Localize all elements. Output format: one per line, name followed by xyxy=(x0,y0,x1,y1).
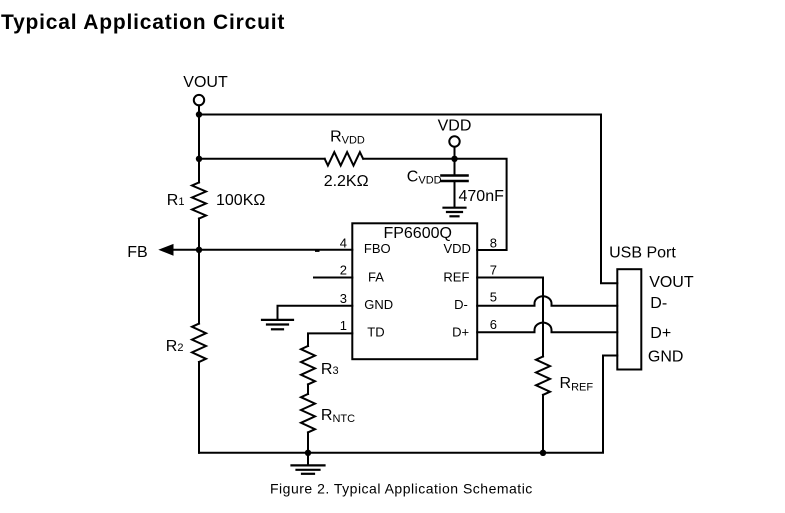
FB arrow xyxy=(158,244,173,256)
wire pin3 GND to ground xyxy=(278,306,353,319)
wire RVDD to VDD node xyxy=(364,158,455,160)
svg-text:2: 2 xyxy=(340,263,347,278)
svg-text:8: 8 xyxy=(490,236,497,251)
terminal VDD xyxy=(449,136,459,146)
svg-text:470nF: 470nF xyxy=(459,188,505,205)
ground under CVDD xyxy=(444,207,466,209)
node dot VDD xyxy=(451,156,457,162)
svg-text:7: 7 xyxy=(490,263,497,278)
svg-text:REF: REF xyxy=(443,269,469,284)
svg-text:6: 6 xyxy=(490,317,497,332)
wire pin2 FA stub xyxy=(314,277,352,279)
wire RREF to bottom rail xyxy=(542,395,544,453)
resistor R3 xyxy=(301,346,315,384)
resistor R2 xyxy=(192,324,206,362)
svg-text:GND: GND xyxy=(648,349,684,366)
resistor RNTC xyxy=(301,394,315,432)
USB port connector box xyxy=(617,269,641,369)
svg-text:100KΩ: 100KΩ xyxy=(216,192,265,209)
svg-text:3: 3 xyxy=(340,291,347,306)
resistor RREF xyxy=(536,357,550,395)
resistor R1 xyxy=(192,183,206,219)
svg-text:VDD: VDD xyxy=(438,118,472,135)
wire R1 to FB node xyxy=(198,219,200,250)
wire R3 to RNTC xyxy=(307,384,309,394)
svg-text:FP6600Q: FP6600Q xyxy=(383,225,451,242)
svg-text:USB Port: USB Port xyxy=(609,245,676,262)
svg-text:Figure 2. Typical Application: Figure 2. Typical Application Schematic xyxy=(270,480,533,496)
wire RNTC to bottom rail xyxy=(307,432,309,452)
svg-text:Typical Application Circuit: Typical Application Circuit xyxy=(1,11,285,34)
wire node2 to RVDD xyxy=(199,158,325,160)
svg-text:GND: GND xyxy=(364,297,393,312)
ground at pin3 xyxy=(262,319,293,321)
pin4 stub tick xyxy=(315,249,320,252)
node dot RVDD row xyxy=(196,156,202,162)
terminal VOUT xyxy=(194,95,204,105)
wire VDD node to pin8 xyxy=(455,159,507,250)
wire top rail to USB xyxy=(199,115,617,284)
svg-text:FA: FA xyxy=(368,269,384,284)
svg-text:VDD: VDD xyxy=(443,241,470,256)
svg-text:2.2KΩ: 2.2KΩ xyxy=(324,173,369,190)
wire pin5 D- to USB with hop xyxy=(477,296,617,306)
wire bottom rail xyxy=(199,356,617,453)
node dot FB xyxy=(196,247,202,253)
wire VDD stub xyxy=(454,147,456,159)
capacitor CVDD xyxy=(454,159,456,175)
node dot VOUT rail xyxy=(196,111,202,117)
wire FB node to R2 xyxy=(198,250,200,324)
svg-text:5: 5 xyxy=(490,290,497,305)
wire VOUT stub xyxy=(198,106,200,115)
wire pin1 TD to R3 xyxy=(308,333,352,346)
svg-text:TD: TD xyxy=(367,325,384,340)
wire pin6 D+ to USB with hop xyxy=(477,323,617,333)
svg-text:D-: D- xyxy=(454,297,468,312)
svg-text:1: 1 xyxy=(340,318,347,333)
ground at bottom rail xyxy=(307,453,309,465)
chip U1 FP6600Q box xyxy=(352,223,477,359)
wire pin7 REF down to RREF xyxy=(477,278,543,357)
svg-text:4: 4 xyxy=(340,236,347,251)
node dot RREF bottom xyxy=(540,450,546,456)
svg-text:FBO: FBO xyxy=(364,241,391,256)
wire FB node to chip pin4 xyxy=(173,249,353,251)
resistor RVDD xyxy=(325,152,363,165)
svg-text:D+: D+ xyxy=(650,325,671,342)
wire node2 down to R1 xyxy=(198,159,200,183)
svg-text:VOUT: VOUT xyxy=(183,74,228,91)
node dot RNTC bottom xyxy=(305,450,311,456)
svg-text:VOUT: VOUT xyxy=(649,274,694,291)
svg-text:FB: FB xyxy=(127,244,147,261)
wire R2 to bottom rail xyxy=(198,362,200,453)
svg-text:D+: D+ xyxy=(452,325,469,340)
wire left rail node1-node2 xyxy=(198,115,200,159)
svg-text:D-: D- xyxy=(650,295,667,312)
